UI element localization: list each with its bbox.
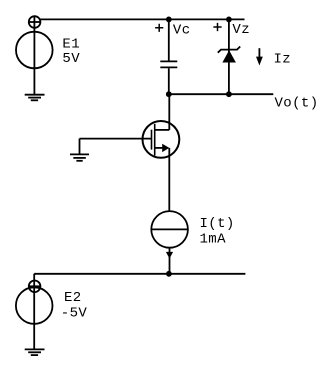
svg-text:-5V: -5V bbox=[61, 305, 88, 321]
svg-text:Vz: Vz bbox=[232, 22, 250, 38]
svg-text:1mA: 1mA bbox=[200, 231, 227, 247]
svg-text:Iz: Iz bbox=[274, 52, 292, 68]
svg-text:Vo(t): Vo(t) bbox=[275, 96, 319, 112]
svg-text:E2: E2 bbox=[64, 290, 82, 306]
svg-text:Vc: Vc bbox=[173, 23, 191, 39]
svg-text:I(t): I(t) bbox=[200, 216, 235, 232]
svg-text:5V: 5V bbox=[62, 51, 80, 67]
